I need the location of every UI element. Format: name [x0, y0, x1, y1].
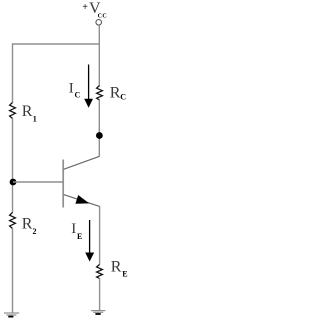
label Ie: [71, 221, 82, 241]
svg-text:C: C: [120, 93, 126, 102]
svg-text:2: 2: [33, 227, 37, 236]
wire top horizontal: [13, 43, 101, 45]
resistor Rc: [97, 86, 103, 101]
svg-text:I: I: [71, 221, 76, 237]
wire Re to ground: [99, 278, 101, 310]
svg-text:R: R: [111, 258, 122, 275]
resistor R2: [10, 213, 16, 229]
svg-text:I: I: [69, 80, 74, 96]
transistor Q1 emitter lead: [64, 195, 100, 207]
label Re: [111, 258, 128, 278]
label R2: [22, 215, 37, 235]
terminal +Vcc: [96, 20, 102, 26]
label +Vcc: [82, 0, 107, 20]
svg-text:R: R: [22, 103, 33, 120]
ground left: [4, 313, 19, 317]
wire emitter down: [99, 206, 101, 265]
wire left rail upper: [12, 43, 14, 103]
label R1: [22, 103, 37, 123]
node base divider junction: [10, 179, 17, 186]
label Ic: [69, 80, 81, 99]
wire terminal to Rc: [98, 25, 100, 86]
wire left rail middle: [12, 118, 14, 212]
svg-text:1: 1: [33, 115, 37, 124]
node collector: [96, 132, 103, 139]
transistor Q1 base bar: [62, 160, 64, 208]
transistor Q1 collector lead: [64, 156, 100, 169]
svg-text:+: +: [82, 2, 88, 13]
svg-text:R: R: [22, 215, 33, 232]
wire base: [13, 181, 64, 183]
wire Rc to collector node: [98, 100, 100, 157]
transistor Q1 emitter arrow: [75, 195, 89, 204]
ground right: [91, 311, 105, 314]
svg-text:E: E: [122, 270, 127, 279]
svg-text:E: E: [77, 232, 82, 241]
current arrow Ic: [84, 65, 93, 108]
svg-text:C: C: [75, 91, 81, 100]
wire left rail lower: [12, 228, 14, 313]
svg-text:R: R: [110, 84, 121, 101]
resistor Re: [97, 265, 103, 279]
label Rc: [110, 84, 127, 101]
current arrow Ie: [85, 220, 94, 262]
svg-text:CC: CC: [98, 14, 108, 20]
resistor R1: [10, 103, 16, 119]
